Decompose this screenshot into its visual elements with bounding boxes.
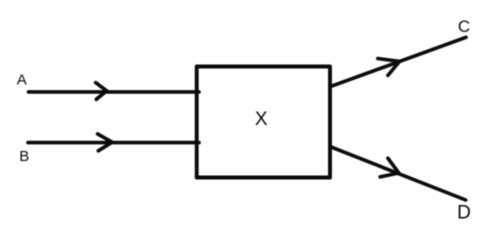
svg-text:A: A — [17, 71, 27, 88]
svg-text:X: X — [255, 109, 268, 130]
block X box — [197, 67, 330, 178]
wire C output — [330, 37, 466, 86]
wire D output — [330, 147, 466, 200]
wire B input — [28, 141, 199, 145]
arrowhead on wire D — [380, 158, 399, 177]
svg-text:B: B — [19, 148, 29, 165]
arrowhead on wire A — [96, 83, 107, 100]
arrowhead on wire C — [378, 59, 400, 76]
svg-text:C: C — [458, 17, 470, 36]
wire A input — [29, 90, 200, 94]
svg-text:D: D — [457, 202, 471, 223]
arrowhead on wire B — [98, 134, 113, 151]
